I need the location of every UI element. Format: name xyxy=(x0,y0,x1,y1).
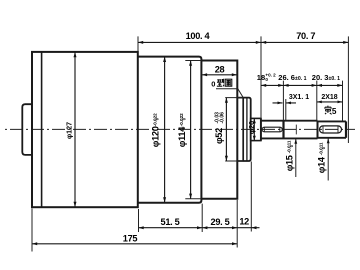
dim 26.6 line xyxy=(283,84,316,86)
glyph kuan 宽 xyxy=(325,106,332,115)
dim 12 line xyxy=(237,227,259,229)
text phi120 tol rotated xyxy=(150,113,160,147)
dim 20.3 line xyxy=(317,84,343,86)
dim 100.4 line xyxy=(138,41,261,43)
svg-text:φ15: φ15 xyxy=(285,155,295,171)
end cap joint line xyxy=(41,52,43,207)
svg-text:φ52: φ52 xyxy=(214,128,224,144)
dim phi20 line xyxy=(253,118,255,140)
text phi52 tol rotated xyxy=(214,112,226,144)
keyway 1 ticks xyxy=(264,127,280,132)
glyph quan 圈 xyxy=(225,79,232,86)
shaft step phi15/phi14 xyxy=(317,121,319,139)
dim 175 line xyxy=(32,243,237,245)
dim 26.6 extension xyxy=(316,81,318,121)
motor body phi127 xyxy=(32,52,138,207)
text phi15 tol rotated xyxy=(285,140,295,171)
terminal bump on left end cap xyxy=(22,104,32,155)
svg-text:28: 28 xyxy=(215,65,225,75)
dim phi114 extension lines xyxy=(185,61,201,199)
svg-text:φ114: φ114 xyxy=(177,126,187,147)
keyway 2 slot xyxy=(320,126,342,133)
text phi114 tol rotated xyxy=(177,113,187,147)
shaft end face xyxy=(345,121,347,137)
svg-text:0: 0 xyxy=(211,79,215,88)
svg-text:29. 5: 29. 5 xyxy=(211,217,230,227)
centerline xyxy=(5,128,355,130)
keyway 1 slot xyxy=(262,127,282,132)
dim 20.3 extension xyxy=(342,81,344,121)
phi15 callout line xyxy=(295,139,297,177)
svg-text:φ120: φ120 xyxy=(150,126,160,147)
shaft phi15 outline xyxy=(261,121,318,139)
svg-text:φ20: φ20 xyxy=(247,121,256,134)
svg-text:18: 18 xyxy=(257,73,265,82)
boss phi20 xyxy=(251,118,261,140)
flange joint line 2 xyxy=(246,98,248,161)
dim phi120 line xyxy=(164,57,166,203)
text phi14 tol rotated xyxy=(317,142,327,173)
dim 3x1.1 arrows xyxy=(273,102,297,104)
svg-text:20. 3±0. 1: 20. 3±0. 1 xyxy=(312,73,340,82)
svg-text:70. 7: 70. 7 xyxy=(296,31,315,41)
text phi20 rotated xyxy=(247,121,256,134)
svg-text:26. 6±0. 1: 26. 6±0. 1 xyxy=(278,73,306,82)
dim 100.4/70.7 shared extension xyxy=(260,36,262,118)
svg-text:175: 175 xyxy=(123,233,138,243)
dim 100.4 extension left xyxy=(137,36,139,51)
section phi120 xyxy=(138,57,202,203)
svg-text:-0.06: -0.06 xyxy=(220,112,226,124)
dim 29.5 line xyxy=(202,227,237,229)
dim 2x18 line xyxy=(317,101,343,103)
dim phi52 extension lines xyxy=(225,98,243,161)
dim phi52 line xyxy=(225,98,227,161)
svg-text:φ127: φ127 xyxy=(65,122,74,139)
svg-text:2X18: 2X18 xyxy=(321,94,337,101)
flange disc phi52 xyxy=(237,98,250,161)
phi14 callout line xyxy=(327,138,329,180)
glyph xing 型 xyxy=(217,79,224,87)
dim 51.5 line xyxy=(139,227,203,229)
dim phi114 line xyxy=(190,61,192,199)
dim 70.7 extension right xyxy=(347,36,349,143)
svg-text:12: 12 xyxy=(239,216,249,226)
shaft center mark xyxy=(295,125,297,135)
dim 70.7 line xyxy=(261,41,348,43)
bottom extensions xyxy=(31,209,33,252)
flange joint line 1 xyxy=(242,98,244,161)
circlip groove 3x1.1 xyxy=(282,121,284,139)
svg-text:0: 0 xyxy=(265,77,268,82)
section phi114 with front face xyxy=(201,61,237,199)
dim 28 line xyxy=(202,74,237,76)
text phi127 rotated xyxy=(65,122,74,139)
svg-text:φ14: φ14 xyxy=(317,156,327,173)
shaft phi14 outline xyxy=(318,121,347,137)
O-ring leader xyxy=(216,89,243,98)
shaft shoulder line xyxy=(260,118,262,140)
dim phi127 line xyxy=(74,52,76,207)
dim 18 extensions xyxy=(283,81,285,121)
svg-text:51. 5: 51. 5 xyxy=(161,217,180,227)
svg-text:100. 4: 100. 4 xyxy=(186,31,211,41)
svg-text:5: 5 xyxy=(332,107,337,116)
dim 18 line xyxy=(261,84,283,86)
svg-text:3X1. 1: 3X1. 1 xyxy=(289,94,309,101)
keyway 2 ticks xyxy=(323,126,338,133)
